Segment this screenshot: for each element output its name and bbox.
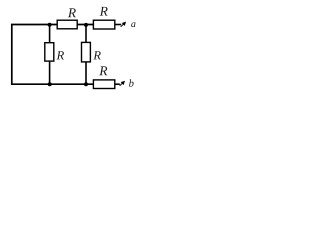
terminal a arrow: [121, 22, 126, 27]
resistor R2 body (top right horizontal): [93, 20, 114, 29]
wire: vertical branch upper segment of resistor R3: [49, 25, 51, 44]
wire: vertical branch upper segment of resistor R4: [85, 25, 87, 44]
resistor R3 value label R: [57, 51, 64, 59]
wire: bottom rail from bottom-left corner to resistor R5: [11, 83, 94, 85]
resistor R1 body (top left horizontal): [57, 20, 77, 29]
resistor R4 value label R: [93, 51, 100, 59]
resistor R2 value label R: [100, 7, 108, 16]
node: junction dot at bottom of R4 branch: [84, 82, 88, 86]
resistor R4 body (right vertical): [82, 42, 91, 62]
wire: stub from resistor R2 to terminal a: [115, 24, 122, 26]
wire: vertical branch lower segment of resistor R4: [85, 62, 87, 85]
node a label: [131, 22, 135, 27]
node b label: [129, 79, 134, 86]
wire: stub from resistor R5 to terminal b: [115, 83, 120, 85]
wire: left rail + top rail segment to resistor R1: [12, 25, 57, 86]
resistor R3 body (left vertical): [45, 43, 54, 61]
node: junction dot at top of R4 branch: [84, 23, 88, 27]
wire: vertical branch lower segment of resistor R3: [49, 61, 51, 85]
node: junction dot at top of R3 branch: [48, 23, 52, 27]
resistor R5 body (bottom horizontal, feeds terminal b): [93, 80, 114, 89]
resistor R5 value label R: [99, 66, 107, 75]
wire: top rail segment between resistor R1 and resistor R2: [77, 24, 94, 26]
node: junction dot at bottom of R3 branch: [48, 82, 52, 86]
resistor R1 value label R: [68, 8, 76, 17]
terminal b arrow: [120, 81, 125, 86]
